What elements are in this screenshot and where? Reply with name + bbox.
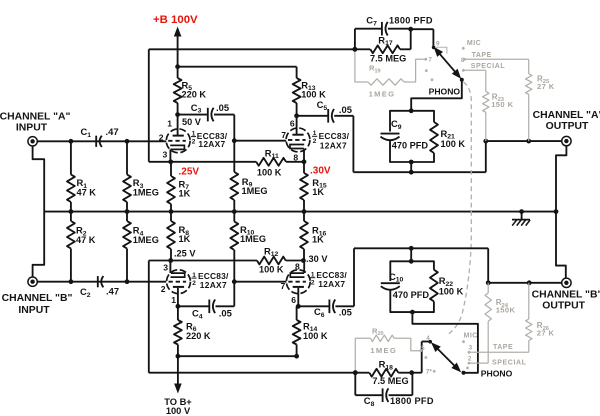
node ground symbol tap (519, 209, 524, 214)
pivot stub gray top (435, 47, 447, 53)
node main line C9 (409, 170, 414, 175)
channel A output jack (562, 136, 571, 145)
label R12 (264, 245, 279, 258)
wire top cathode line (149, 161, 256, 163)
wire R12 to V2B cathode (286, 260, 304, 262)
contact dots top left (425, 69, 434, 81)
label R17 value (370, 53, 406, 63)
resistor R9 (230, 172, 238, 212)
node bus R9 (232, 209, 237, 214)
svg-text:.30 V: .30 V (306, 254, 328, 264)
capacitor C3 (208, 108, 214, 122)
label channel B input (2, 293, 73, 316)
svg-text:TAPE: TAPE (493, 344, 513, 351)
triode V1B (286, 128, 310, 152)
label R16 (312, 225, 327, 245)
contact dot phono-1 bottom (466, 367, 469, 370)
svg-text:PHONO: PHONO (429, 87, 461, 97)
pin 7 V2B (281, 281, 286, 291)
svg-text:6: 6 (291, 295, 296, 305)
ground bus (44, 211, 556, 213)
svg-text:3: 3 (163, 262, 168, 272)
node C8 left (353, 370, 358, 375)
wire plate to C5 (297, 115, 329, 117)
label C8 (364, 395, 375, 408)
wire top right riser (485, 141, 487, 172)
resistor R5 (174, 67, 182, 115)
svg-text:100 K: 100 K (441, 139, 466, 149)
resistor R1 (67, 141, 75, 211)
resistor R26 (gray) (526, 283, 532, 353)
resistor R17 (355, 45, 411, 53)
node V2A cathode (168, 258, 173, 263)
svg-text:7.5 MEG: 7.5 MEG (370, 53, 406, 63)
node bus R3 (125, 209, 130, 214)
label .25V red top (179, 167, 200, 178)
wire plate to C3 (178, 114, 208, 116)
node C9 top (409, 108, 414, 113)
pin 2 V1A (159, 132, 164, 142)
wire to wiper pivot bottom (412, 342, 429, 373)
channel B input jack (28, 277, 37, 286)
wire bottom feedback line (149, 372, 355, 374)
stub main line to C10 (410, 248, 412, 261)
node C7 left (353, 47, 358, 52)
svg-text:7: 7 (281, 130, 286, 140)
capacitor C7 branch (355, 22, 411, 49)
label .30 V black bottom (306, 254, 328, 264)
label R2 (76, 225, 96, 245)
svg-text:OUTPUT: OUTPUT (542, 300, 585, 311)
label V2B half ECC83/12AX7 (310, 270, 347, 289)
capacitor C4 (209, 300, 215, 314)
svg-text:47 K: 47 K (76, 235, 96, 245)
label R24 gray (496, 298, 516, 314)
capacitor C5 (328, 109, 334, 123)
resistor R12 (257, 257, 286, 265)
svg-text:1MEG: 1MEG (370, 346, 397, 355)
resistor R23 (gray) (483, 70, 489, 141)
label SPECIAL bottom (492, 359, 527, 366)
node C8 right (409, 370, 414, 375)
label R20 gray (372, 326, 384, 337)
wire bottom cathode line (149, 260, 257, 262)
node B+ bottom left (176, 354, 181, 359)
resistor R25 (gray) (526, 59, 532, 141)
wire C10 to phono contact bottom (412, 312, 478, 373)
wire top B+ bus (178, 66, 297, 68)
svg-text:150 K: 150 K (491, 100, 513, 109)
svg-text:2: 2 (161, 284, 166, 294)
svg-text:1MEG: 1MEG (369, 90, 396, 99)
pin 1 V1A (167, 119, 172, 129)
svg-text:7: 7 (428, 56, 432, 63)
wire input A line (37, 140, 166, 142)
label R18 value (372, 376, 408, 386)
svg-text:INPUT: INPUT (16, 123, 48, 134)
svg-text:1MEG: 1MEG (133, 235, 159, 245)
pin 3 V2A (163, 262, 168, 272)
wire C3 to grid column (214, 115, 234, 172)
svg-text:3: 3 (163, 149, 168, 159)
capacitor C9 (381, 134, 400, 141)
network C9/R21 box (390, 111, 434, 162)
label TAPE bottom (493, 344, 513, 351)
label V1A half ECC83/12AX7 (191, 130, 228, 149)
wire to wiper pivot top (411, 29, 434, 46)
resistor R18 (355, 369, 412, 377)
svg-text:100 K: 100 K (439, 287, 464, 297)
svg-text:220 K: 220 K (186, 331, 211, 341)
node output A right (526, 139, 531, 144)
svg-text:1K: 1K (179, 234, 191, 244)
svg-text:.47: .47 (106, 286, 119, 297)
svg-text:CHANNEL "A": CHANNEL "A" (533, 110, 600, 121)
B+ arrow down (174, 356, 182, 393)
svg-text:100 K: 100 K (303, 331, 328, 341)
wire V2B grid line (234, 281, 286, 283)
node V2A plate (176, 304, 181, 309)
svg-text:47 K: 47 K (77, 187, 97, 197)
label channel A input (0, 111, 70, 133)
label C4 (192, 308, 203, 321)
label C1 (81, 126, 92, 139)
svg-text:.05: .05 (339, 307, 352, 318)
label R23 gray (491, 92, 513, 109)
svg-text:100 K: 100 K (301, 90, 326, 100)
pin 2 V2A (161, 284, 166, 294)
node V1B cathode (302, 159, 307, 164)
svg-text:.30V: .30V (310, 166, 331, 177)
resistor R2 (67, 212, 75, 282)
triode V2A (167, 270, 191, 294)
label C5 (317, 99, 328, 112)
contact 7 top (424, 56, 432, 63)
resistor R3 (123, 141, 131, 211)
node C8 left re-ink (353, 370, 358, 375)
wire input B line (37, 281, 166, 283)
label C8 value 1800 PFD (390, 396, 434, 406)
wire R11 to V1B cathode (286, 161, 304, 163)
label R20 value gray (370, 346, 397, 355)
svg-text:.05: .05 (216, 102, 229, 113)
label C2 (80, 286, 91, 299)
node C10 top (409, 259, 414, 264)
node output B left (486, 280, 491, 285)
label R25 gray (537, 74, 555, 91)
resistor R6 (174, 306, 182, 356)
wire V1B plate lead (296, 116, 298, 135)
svg-text:1K: 1K (312, 187, 324, 197)
node ground bus right (554, 209, 559, 214)
wire C6 to main line (335, 248, 488, 306)
label R10 (240, 224, 266, 244)
svg-text:1800 PFD: 1800 PFD (390, 396, 434, 406)
node B+ bottom right (294, 354, 299, 359)
label R7 (179, 178, 191, 198)
contact SPECIAL top (462, 63, 505, 72)
node R4 bottom (125, 279, 130, 284)
svg-text:SPECIAL: SPECIAL (492, 359, 527, 366)
svg-text:CHANNEL "A": CHANNEL "A" (0, 111, 70, 122)
wire jack B shell to ground bus (33, 212, 45, 277)
wire C5 to main line (334, 116, 486, 172)
node C10 bottom (410, 310, 415, 315)
svg-text:2: 2 (159, 132, 164, 142)
wire output A line (486, 140, 562, 142)
switch section link (dashed) (448, 82, 471, 335)
contact 5 bottom (419, 345, 425, 352)
label PHONO top (429, 87, 461, 97)
node C7 left re-ink (353, 47, 358, 52)
node bus R15 (302, 209, 307, 214)
wire C4 to grid column (216, 250, 235, 306)
label channel A output (533, 110, 600, 132)
node R1 top (69, 139, 74, 144)
label C4 value .05 (219, 308, 232, 319)
channel A input jack (28, 137, 37, 146)
resistor R16 (300, 212, 308, 261)
svg-text:7: 7 (281, 281, 286, 291)
svg-text:12AX7: 12AX7 (318, 279, 345, 289)
svg-text:6: 6 (290, 119, 295, 129)
wire V2B cathode lead (303, 261, 305, 274)
svg-text:470 PFD: 470 PFD (393, 290, 430, 300)
label R12 value (259, 265, 284, 275)
label .30V red top (310, 166, 331, 177)
svg-text:9: 9 (436, 41, 440, 48)
B+ arrow up (174, 27, 182, 67)
wire TAPE to R25 (gray) (465, 58, 529, 60)
label PHONO bottom (481, 368, 513, 378)
label TO B+ 100V (164, 397, 192, 416)
label R9 (242, 176, 268, 196)
ground (512, 212, 530, 226)
svg-text:1800 PFD: 1800 PFD (389, 16, 433, 26)
label C9 value (392, 140, 429, 150)
label .25 V black bottom (174, 248, 196, 258)
svg-text:.47: .47 (106, 126, 119, 137)
label R8 (179, 224, 191, 244)
svg-text:150K: 150K (496, 306, 516, 315)
wire bottom B+ bus (178, 355, 297, 357)
node C9 bottom (409, 160, 414, 165)
pin 8 V1B (293, 152, 298, 162)
contact 3 bottom (468, 344, 473, 353)
svg-text:100 K: 100 K (259, 265, 284, 275)
label V2A half ECC83/12AX7 (191, 271, 229, 290)
svg-text:1MEG: 1MEG (240, 234, 266, 244)
wire plate to C6 (298, 305, 329, 307)
svg-text:2: 2 (468, 356, 472, 363)
wire jack A shell to ground bus (33, 146, 45, 212)
resistor R10 (230, 212, 238, 250)
stub C9 to main line (410, 162, 412, 172)
label R17 (378, 34, 393, 47)
label C6 (314, 306, 325, 319)
wire V2A plate lead (177, 288, 179, 307)
label C6 value .05 (339, 307, 352, 318)
node C7 right (408, 27, 413, 32)
label channel B output (532, 289, 600, 311)
svg-text:+B 100V: +B 100V (153, 14, 198, 26)
wire contact2 to R24 (gray) (469, 362, 488, 364)
wire phono contact top (411, 80, 462, 111)
svg-text:12AX7: 12AX7 (200, 280, 227, 290)
svg-text:100 K: 100 K (257, 167, 282, 177)
svg-text:CHANNEL "B": CHANNEL "B" (2, 293, 73, 304)
resistor R4 (123, 212, 131, 282)
wire contact3 to R26 (gray) (469, 351, 529, 353)
wire top feedback line (149, 48, 355, 50)
label C2 value .47 (106, 286, 119, 297)
svg-text:100 V: 100 V (166, 406, 191, 416)
wire left feedback vertical bottom (148, 261, 150, 373)
svg-text:.05: .05 (219, 308, 232, 319)
contact 8 TAPE top (461, 52, 492, 64)
label R19 value gray (369, 90, 396, 99)
svg-text:50 V: 50 V (182, 117, 202, 127)
contact 2 bottom (468, 356, 472, 365)
capacitor C2 (98, 276, 104, 287)
label C3 (191, 102, 202, 115)
node B+ top (175, 64, 180, 69)
capacitor C1 (96, 136, 102, 147)
node V2B grid tap (232, 279, 237, 284)
label R4 (133, 225, 159, 245)
switch S1B wiper (428, 340, 465, 375)
label R11 value (257, 167, 282, 177)
contact MIC bottom (462, 333, 478, 344)
label R15 (312, 177, 327, 197)
node V1B grid tap (232, 138, 237, 143)
resistor R14 (293, 306, 301, 356)
contact 4 bottom (426, 335, 430, 342)
svg-text:TAPE: TAPE (472, 52, 492, 59)
svg-text:1: 1 (167, 119, 172, 129)
label R13 (301, 79, 326, 99)
wire left feedback vertical top (148, 49, 150, 162)
wire jack A out shell down (556, 146, 566, 212)
node V2B plate (296, 304, 301, 309)
svg-text:MIC: MIC (464, 333, 478, 340)
label R1 (77, 177, 97, 197)
label R21 (441, 128, 466, 149)
resistor R7 (167, 162, 175, 212)
svg-text:12AX7: 12AX7 (198, 139, 225, 149)
label R19 gray (369, 64, 381, 75)
node bus R7 (169, 209, 174, 214)
label C3 value .05 (216, 102, 229, 113)
node R3 top (125, 139, 130, 144)
svg-text:2: 2 (192, 139, 196, 146)
label C1 value .47 (106, 126, 119, 137)
node V2B cathode (301, 258, 306, 263)
label R3 (133, 177, 159, 197)
svg-text:2: 2 (313, 138, 317, 145)
node main line C10 (409, 246, 414, 251)
svg-text:3: 3 (469, 344, 473, 351)
wire bottom right riser (487, 248, 489, 282)
svg-text:INPUT: INPUT (18, 305, 50, 316)
svg-text:1K: 1K (179, 188, 191, 198)
svg-text:220 K: 220 K (182, 90, 207, 100)
label R14 (303, 320, 328, 341)
switch S1A wiper (432, 46, 464, 82)
wire V1B cathode lead (303, 149, 305, 162)
label R6 (186, 320, 211, 341)
svg-text:OUTPUT: OUTPUT (546, 121, 589, 132)
pin 6 V1B (290, 119, 295, 129)
node output B right (527, 280, 532, 285)
wire V1A plate lead (177, 115, 179, 136)
label +B 100V red (153, 14, 198, 26)
label R5 (182, 79, 207, 99)
svg-text:.25V: .25V (179, 167, 200, 178)
pin 6 V2B (291, 295, 296, 305)
wire SPECIAL to R23 (gray) (463, 69, 486, 71)
node V1A plate (175, 112, 180, 117)
pin 8 V2B (295, 261, 300, 271)
svg-text:8: 8 (293, 152, 298, 162)
node V1A cathode (168, 159, 173, 164)
capacitor C10 (381, 283, 400, 290)
svg-text:4: 4 (426, 335, 430, 342)
network C10/R22 box (390, 261, 434, 312)
wire output B line (488, 282, 562, 284)
label C9 (391, 118, 402, 131)
resistor R13 (293, 67, 301, 116)
label 50 V (182, 117, 202, 127)
resistor R24 (gray) (485, 283, 491, 363)
label R11 (265, 147, 279, 160)
resistor R8 (167, 212, 175, 261)
svg-text:1K: 1K (312, 235, 324, 245)
pin 3 V1A (163, 149, 168, 159)
triode V1A (166, 129, 190, 153)
svg-text:1MEG: 1MEG (133, 187, 159, 197)
capacitor C8 branch (355, 373, 412, 402)
pin 7 V1B (281, 130, 286, 140)
node V1B plate (294, 113, 299, 118)
contact dots bottom left (425, 356, 436, 376)
svg-text:470 PFD: 470 PFD (392, 140, 429, 150)
capacitor C6 (329, 300, 335, 314)
svg-text:.25 V: .25 V (174, 248, 196, 258)
svg-text:7.5 MEG: 7.5 MEG (372, 376, 408, 386)
resistor R20 (gray) (355, 335, 419, 373)
label R22 (439, 275, 464, 296)
node R2 bottom (69, 279, 74, 284)
wire jack B out shell up (556, 212, 566, 279)
svg-text:1MEG: 1MEG (242, 186, 268, 196)
wire V2B plate lead (297, 288, 299, 307)
resistor R15 (300, 162, 308, 212)
svg-text:1: 1 (171, 295, 176, 305)
triode V2B (286, 270, 310, 294)
label V1B half ECC83/12AX7 (312, 130, 350, 151)
pin 1 V2A (171, 295, 176, 305)
label C7 value 1800 PFD (389, 16, 433, 26)
label C10 (389, 271, 404, 284)
svg-text:CHANNEL "B": CHANNEL "B" (532, 289, 600, 300)
label R26 gray (537, 321, 555, 338)
svg-text:2: 2 (311, 280, 315, 287)
label C5 value .05 (339, 104, 352, 115)
svg-text:27 K: 27 K (537, 82, 555, 91)
resistor R19 (gray) (355, 49, 425, 85)
wire V1B grid line (234, 140, 286, 142)
